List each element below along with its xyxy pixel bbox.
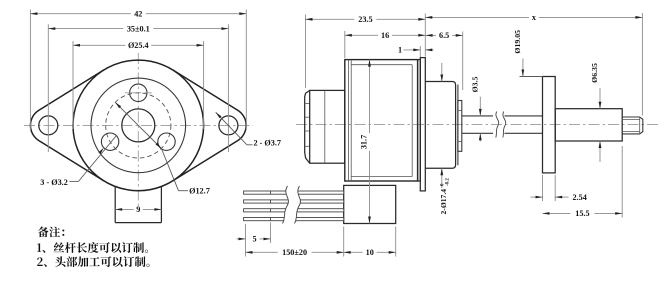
svg-text:5: 5 — [252, 235, 256, 244]
leader Ø19.05 (disc diameter) — [522, 58, 524, 76]
note 1 丝杆长度可以订制 — [37, 242, 148, 253]
front view: horizontal centerline — [24, 124, 253, 126]
svg-text:150±20: 150±20 — [282, 248, 307, 257]
side view: motor can body — [345, 60, 418, 181]
dimension 6.5 — [426, 34, 437, 36]
svg-text:35±0.1: 35±0.1 — [127, 24, 150, 33]
side view: rear end-bell cap — [305, 90, 310, 163]
svg-text:2-Ø17.4: 2-Ø17.4 — [439, 189, 448, 215]
dimension 42 — [30, 13, 130, 15]
dimension 35±0.1 extension lines — [47, 24, 49, 152]
side view: threaded tip — [622, 117, 643, 134]
dimension 15.5 extension line — [621, 146, 623, 218]
dimension x (screw length) extension line — [641, 13, 643, 116]
dimension Ø25.4 — [73, 44, 125, 46]
side view: bushing stub — [458, 101, 462, 152]
dimension 150±20 extension lines — [245, 224, 247, 257]
side view: can inner seam lines — [348, 60, 350, 181]
dimension 16 — [345, 34, 378, 36]
dimension 2.54 — [531, 196, 543, 198]
front view: right ear mounting hole (2-Ø3.7) — [219, 116, 238, 135]
leader Ø12.7 (bolt circle diameter) — [115, 102, 161, 148]
dimension 42 extension lines — [29, 10, 31, 131]
wire insulation marks at 5mm — [270, 191, 272, 194]
svg-text:1: 1 — [398, 46, 402, 55]
dimension 23.5 — [306, 18, 355, 20]
front view: pilot boss circle — [91, 78, 186, 173]
dimension 16 extension line — [344, 31, 346, 58]
svg-text:Ø19.05: Ø19.05 — [513, 30, 522, 54]
dimension x — [425, 16, 529, 18]
dimension 15.5 — [543, 212, 571, 214]
svg-text:16: 16 — [381, 31, 389, 40]
front view: bolt circle Ø12.7 (dashed) — [106, 93, 171, 158]
front view: bottom connector tab — [114, 187, 116, 223]
svg-text:-0.2: -0.2 — [446, 178, 451, 186]
dimension 23.5 extension lines — [305, 15, 307, 89]
side view: screw break symbol — [496, 112, 499, 138]
dimension 1 (washer) — [419, 46, 421, 57]
svg-text:3 - Ø3.2: 3 - Ø3.2 — [40, 178, 68, 187]
svg-text:15.5: 15.5 — [575, 209, 589, 218]
dimension 10 extension line — [395, 227, 397, 257]
note 2 头部加工可以订制 — [37, 256, 149, 267]
svg-text:Ø6.35: Ø6.35 — [590, 63, 599, 83]
front view: mounting flange outline (tangent edges + ear arcs) — [30, 70, 103, 181]
svg-text:6.5: 6.5 — [439, 31, 449, 40]
dimension 150±20 — [246, 251, 278, 253]
svg-text:23.5: 23.5 — [358, 15, 372, 24]
dimension 10 — [344, 251, 363, 253]
svg-text:10: 10 — [366, 248, 374, 257]
svg-text:2.54: 2.54 — [573, 193, 587, 202]
dimension 35±0.1 — [48, 28, 123, 30]
svg-text:Ø25.4: Ø25.4 — [128, 41, 149, 50]
side view: pilot boss 2-Ø17.4 — [425, 82, 455, 169]
side view: horizontal centerline — [296, 124, 659, 126]
dimension 9 (tab width) — [115, 208, 134, 210]
leader Ø6.35 (cylinder diameter) — [599, 88, 601, 109]
svg-text:Ø12.7: Ø12.7 — [189, 186, 210, 195]
dimension 31.7 (body height) — [369, 60, 371, 133]
side view: flange disc Ø19.05 — [543, 77, 556, 173]
leader 2-Ø17.4 0/-0.2 — [441, 63, 443, 82]
side view: cylinder Ø6.35 — [555, 109, 622, 141]
lead wires (4x) — [244, 191, 344, 194]
front view: vertical centerline — [137, 53, 139, 206]
svg-text:2 - Ø3.7: 2 - Ø3.7 — [254, 139, 282, 148]
svg-text:31.7: 31.7 — [360, 135, 369, 149]
front view: screw hole bottom-left (3-Ø3.2) — [101, 133, 118, 150]
notes title 备注： — [38, 227, 65, 238]
svg-text:42: 42 — [134, 10, 142, 19]
dimension 5 — [237, 238, 246, 240]
leader Ø3.5 (screw diameter) — [479, 97, 481, 116]
dimension Ø25.4 extension lines — [72, 41, 74, 129]
side view: lead screw Ø3.5 (with break) — [462, 115, 493, 117]
svg-text:9: 9 — [136, 205, 140, 214]
svg-text:Ø3.5: Ø3.5 — [471, 76, 480, 92]
dimension 2.54 extension lines — [542, 175, 544, 201]
front view: motor can circle Ø25.4 — [73, 60, 204, 191]
side view: rear housing — [310, 90, 345, 163]
front view: center shaft hole — [122, 109, 155, 142]
side view: front cap — [418, 60, 421, 181]
dimension 6.5 extension line — [462, 32, 464, 91]
dimension 5 extension line — [270, 223, 272, 244]
front view: screw hole top (3-Ø3.2) — [130, 84, 147, 101]
leader 3-Ø3.2 — [69, 180, 78, 182]
side view: connector block — [344, 185, 396, 223]
wire break symbol — [283, 186, 301, 224]
front view: screw hole bottom-right (3-Ø3.2) — [158, 133, 175, 150]
leader 2-Ø3.7 (ear holes) — [216, 112, 247, 145]
front view: left ear mounting hole (2-Ø3.7) — [39, 116, 58, 135]
side view: front mounting plate (1mm washer) — [420, 58, 425, 191]
